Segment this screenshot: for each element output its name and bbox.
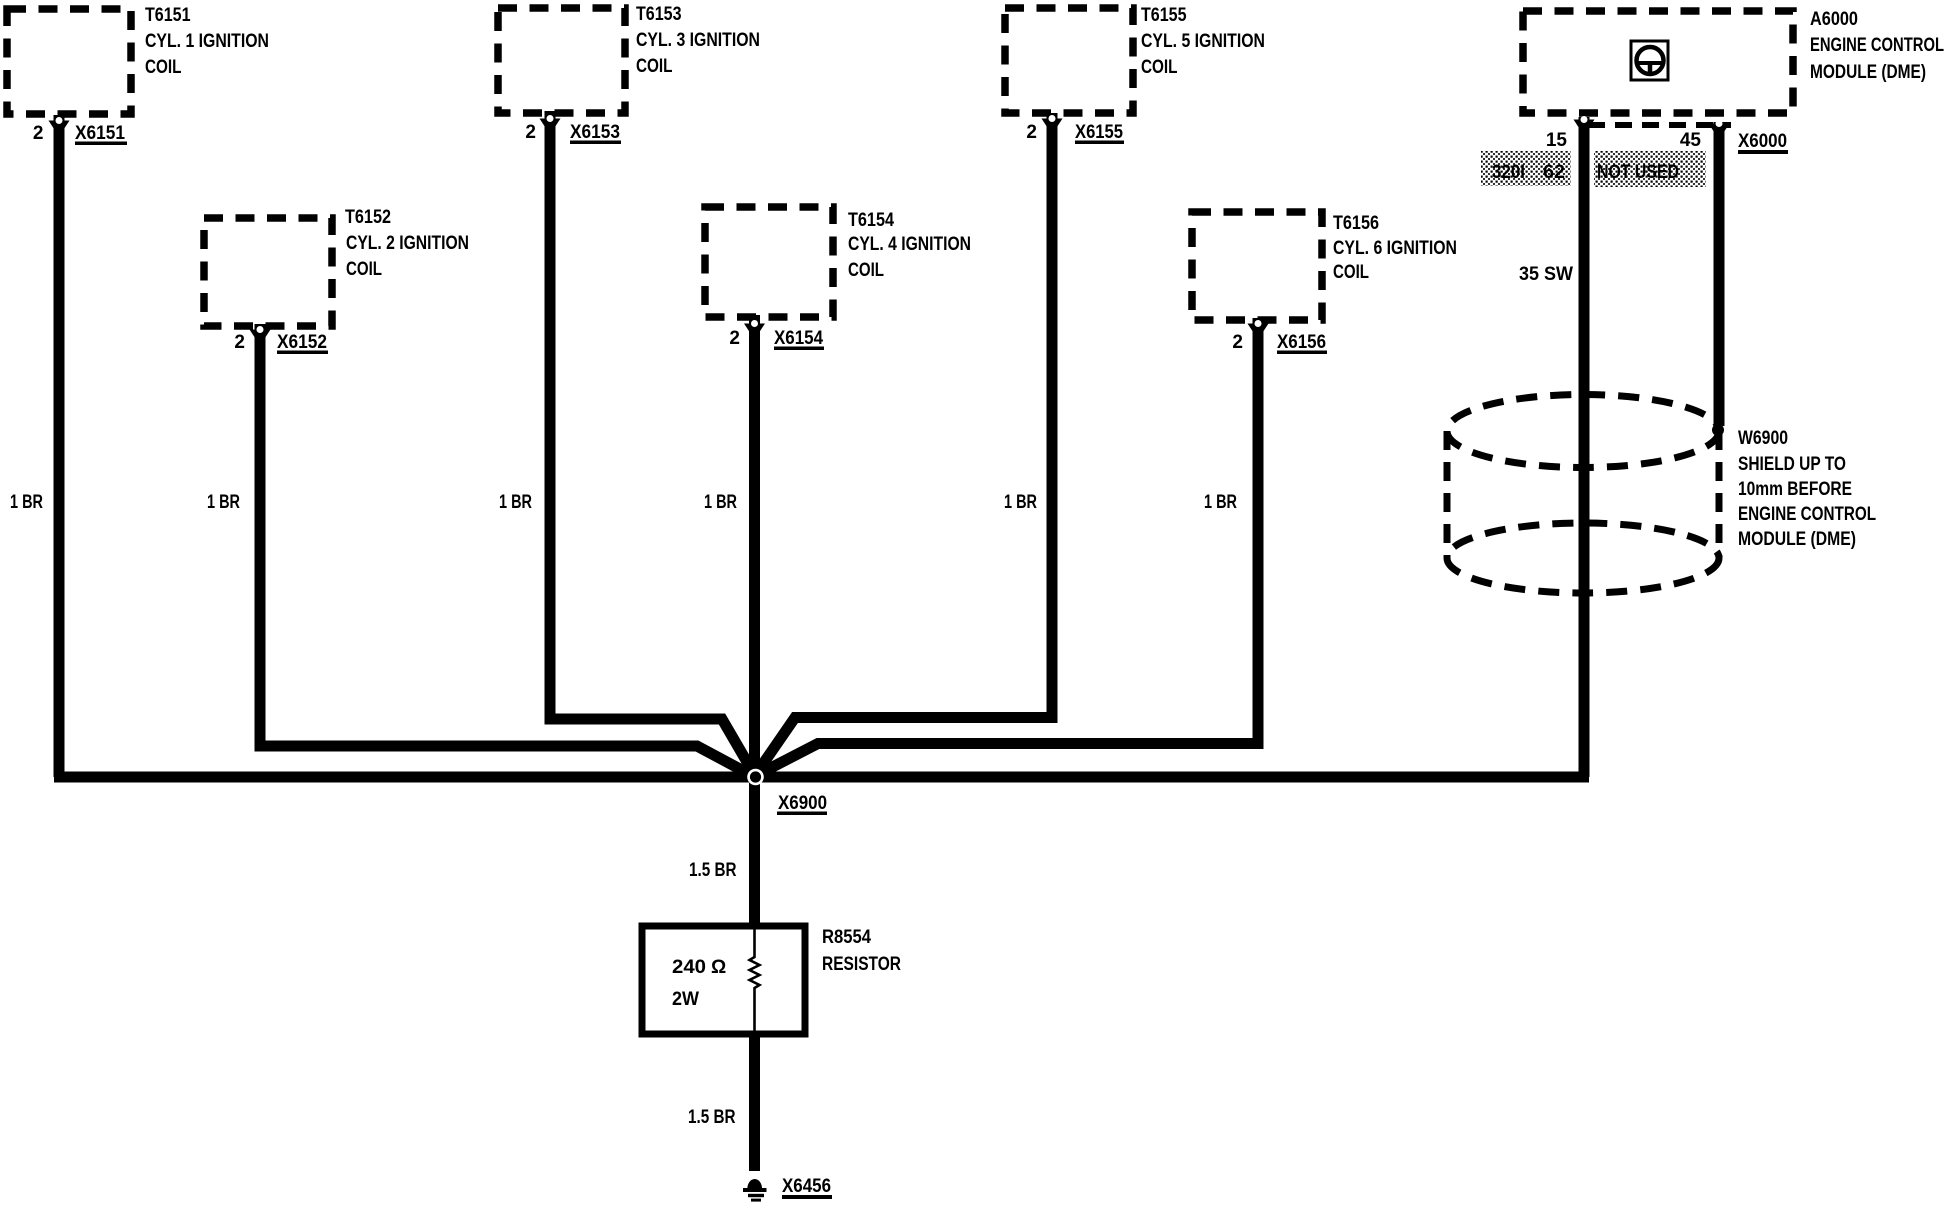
svg-text:2: 2	[1026, 122, 1037, 143]
svg-text:CYL. 5 IGNITION: CYL. 5 IGNITION	[1141, 31, 1265, 52]
svg-text:ENGINE CONTROL: ENGINE CONTROL	[1810, 35, 1944, 56]
svg-text:45: 45	[1680, 130, 1702, 151]
wire 1 BR from X6153 to node X6900	[550, 111, 754, 774]
svg-text:T6156: T6156	[1333, 213, 1379, 234]
ignition coil T6155 (box)	[1005, 8, 1133, 113]
svg-text:X6900: X6900	[778, 793, 827, 814]
wire 35 SW from DME pin 15 to node X6900	[1579, 117, 1590, 777]
connector arrow X6153	[540, 115, 561, 132]
svg-text:240: 240	[672, 957, 706, 978]
svg-text:A6000: A6000	[1810, 9, 1858, 30]
svg-text:35 SW: 35 SW	[1519, 264, 1573, 285]
svg-text:COIL: COIL	[145, 57, 182, 78]
svg-text:COIL: COIL	[346, 259, 382, 280]
wire 1 BR from X6152 to node X6900	[260, 324, 753, 776]
resistor R8554 (box)	[642, 926, 805, 1034]
svg-text:X6156: X6156	[1277, 332, 1326, 353]
svg-text:COIL: COIL	[848, 260, 884, 281]
svg-text:COIL: COIL	[1333, 262, 1369, 283]
svg-text:X6154: X6154	[774, 328, 823, 349]
label T6154 CYL. 4 IGNITION COIL	[848, 210, 971, 281]
model tag 320I 62 (hatched)	[1481, 151, 1571, 186]
value label 240 Ohm 2W	[672, 957, 726, 1010]
label T6153 CYL. 3 IGNITION COIL	[636, 4, 760, 77]
svg-text:320I: 320I	[1492, 162, 1525, 183]
label X6000	[1738, 131, 1788, 154]
wire 1.5 BR from resistor R8554 to ground X6456	[749, 1032, 760, 1171]
ignition coil T6154 (box)	[705, 207, 833, 317]
wire main horizontal bus into node X6900	[54, 772, 1589, 783]
svg-text:T6153: T6153	[636, 4, 682, 25]
svg-text:COIL: COIL	[1141, 57, 1178, 78]
connector arrow X6151	[49, 117, 70, 134]
svg-text:T6155: T6155	[1141, 5, 1187, 26]
svg-text:CYL. 2 IGNITION: CYL. 2 IGNITION	[346, 233, 469, 254]
svg-text:X6155: X6155	[1075, 122, 1123, 143]
svg-text:MODULE (DME): MODULE (DME)	[1810, 62, 1926, 83]
label T6155 CYL. 5 IGNITION COIL	[1141, 5, 1265, 78]
svg-text:1 BR: 1 BR	[704, 492, 737, 513]
label X6153	[570, 122, 621, 144]
svg-text:2W: 2W	[672, 989, 699, 1010]
connector arrow X6154	[744, 320, 765, 337]
label T6156 CYL. 6 IGNITION COIL	[1333, 213, 1457, 283]
label W6900 SHIELD UP TO 10mm BEFORE ENGINE CONTROL MODULE (DME)	[1738, 428, 1876, 550]
svg-text:SHIELD UP TO: SHIELD UP TO	[1738, 454, 1846, 475]
svg-text:W6900: W6900	[1738, 428, 1788, 449]
svg-text:T6151: T6151	[145, 5, 191, 26]
svg-text:15: 15	[1546, 130, 1568, 151]
svg-text:CYL. 4 IGNITION: CYL. 4 IGNITION	[848, 234, 971, 255]
connector arrow X6000 pin 45	[1709, 120, 1730, 137]
label X6456	[782, 1176, 832, 1199]
label X6900	[777, 793, 827, 815]
label X6152	[277, 332, 328, 354]
svg-text:COIL: COIL	[636, 56, 673, 77]
shield W6900 (dashed cylinder)	[1447, 395, 1719, 594]
wire 1.5 BR from node X6900 to resistor R8554	[749, 777, 760, 928]
svg-text:1 BR: 1 BR	[207, 492, 240, 513]
svg-text:NOT USED: NOT USED	[1597, 162, 1679, 183]
wire 1 BR from X6155 to node X6900	[756, 113, 1052, 774]
svg-text:X6153: X6153	[570, 122, 620, 143]
ignition coil T6151 (box)	[7, 9, 131, 114]
svg-text:1.5 BR: 1.5 BR	[688, 1107, 736, 1128]
label T6151 CYL. 1 IGNITION COIL	[145, 5, 269, 78]
svg-text:CYL. 6 IGNITION: CYL. 6 IGNITION	[1333, 238, 1457, 259]
svg-text:MODULE (DME): MODULE (DME)	[1738, 529, 1856, 550]
svg-text:1 BR: 1 BR	[10, 492, 43, 513]
resistor element (zigzag)	[750, 926, 760, 1034]
svg-text:2: 2	[234, 332, 245, 353]
ignition coil T6153 (box)	[498, 8, 625, 113]
svg-text:2: 2	[1232, 332, 1243, 353]
svg-text:ENGINE CONTROL: ENGINE CONTROL	[1738, 504, 1876, 525]
svg-text:T6154: T6154	[848, 210, 894, 231]
svg-text:RESISTOR: RESISTOR	[822, 954, 901, 975]
label A6000 ENGINE CONTROL MODULE (DME)	[1810, 9, 1944, 83]
svg-text:Ω: Ω	[711, 957, 726, 978]
wire 1 BR from X6154 to node X6900	[749, 315, 760, 774]
label X6154	[774, 328, 824, 350]
svg-text:2: 2	[525, 122, 536, 143]
svg-text:X6456: X6456	[782, 1176, 831, 1197]
wire 1 BR from X6151 to node X6900	[54, 115, 65, 777]
svg-text:X6151: X6151	[75, 123, 125, 144]
connector arrow X6152	[250, 326, 271, 343]
label X6151	[75, 123, 127, 145]
engine control module A6000 (box)	[1523, 11, 1793, 113]
svg-text:1.5 BR: 1.5 BR	[689, 860, 737, 881]
ignition coil T6156 (box)	[1192, 212, 1322, 320]
label X6155	[1075, 122, 1124, 144]
label T6152 CYL. 2 IGNITION COIL	[345, 207, 469, 280]
connector arrow X6155	[1042, 115, 1063, 132]
svg-text:10mm BEFORE: 10mm BEFORE	[1738, 479, 1852, 500]
svg-text:CYL. 3 IGNITION: CYL. 3 IGNITION	[636, 30, 760, 51]
svg-text:X6152: X6152	[277, 332, 327, 353]
svg-text:1 BR: 1 BR	[499, 492, 532, 513]
svg-text:X6000: X6000	[1738, 131, 1787, 152]
ignition coil T6152 (box)	[204, 218, 332, 326]
ground X6456 symbol	[743, 1179, 767, 1202]
svg-text:1 BR: 1 BR	[1204, 492, 1237, 513]
label R8554 RESISTOR	[822, 927, 901, 975]
connector X6000 dashed line	[1588, 122, 1731, 128]
wire pin 45 stub (NOT USED)	[1714, 122, 1725, 426]
shield callout dot (pin 45 stub end)	[1712, 424, 1724, 436]
label X6156	[1277, 332, 1327, 354]
tag NOT USED (hatched)	[1594, 151, 1706, 187]
connector arrow X6000 pin 15	[1574, 116, 1595, 133]
svg-text:2: 2	[33, 123, 44, 144]
svg-text:CYL. 1 IGNITION: CYL. 1 IGNITION	[145, 31, 269, 52]
svg-text:T6152: T6152	[345, 207, 391, 228]
wire 1 BR from X6156 to node X6900	[757, 318, 1258, 775]
node X6900 junction	[747, 769, 764, 786]
connector arrow X6156	[1248, 320, 1269, 337]
svg-text:2: 2	[729, 328, 740, 349]
svg-text:R8554: R8554	[822, 927, 871, 948]
svg-text:1 BR: 1 BR	[1004, 492, 1037, 513]
svg-text:62: 62	[1543, 162, 1565, 183]
control module icon (DME symbol)	[1631, 41, 1668, 80]
